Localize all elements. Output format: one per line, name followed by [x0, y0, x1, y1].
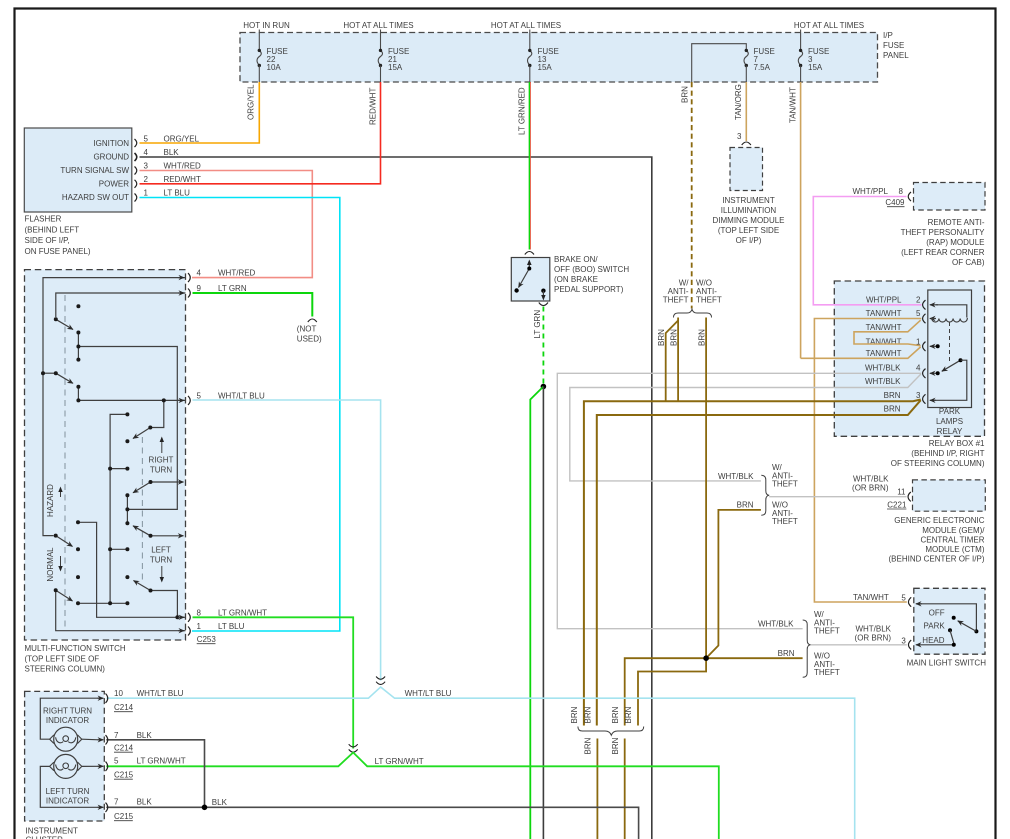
svg-text:PARK: PARK: [924, 621, 946, 630]
MFS pin 9 connector: [188, 289, 190, 298]
relay contact dot pin 1: [936, 344, 940, 348]
wire LT GRN MFS pin9 to not-used: [193, 293, 313, 317]
svg-text:C214: C214: [114, 703, 134, 712]
svg-text:CENTRAL TIMER: CENTRAL TIMER: [920, 536, 984, 545]
flasher pin 3 connector: [135, 167, 137, 175]
svg-text:WHT/PPL: WHT/PPL: [852, 187, 888, 196]
svg-text:TAN/WHT: TAN/WHT: [789, 87, 798, 123]
svg-text:LEFT TURN: LEFT TURN: [46, 787, 90, 796]
MLS blade: [958, 621, 977, 632]
svg-text:TURN SIGNAL SW: TURN SIGNAL SW: [60, 166, 129, 175]
svg-text:GROUND: GROUND: [93, 153, 129, 162]
MFS normal pivot feed to pin 1: [56, 590, 186, 631]
wire TAN/ORG fuse 7 to dimming module: [745, 82, 747, 141]
cluster pin 7 connector: [98, 739, 104, 741]
brace merging four BRN wires: [578, 727, 644, 736]
wire WHT/BLK relay pin4 to MLS brace: [557, 373, 921, 628]
wire BRN output 1 to bottom: [596, 739, 598, 839]
svg-text:BRN: BRN: [697, 329, 706, 346]
wire WHT/RED flasher pin3 to MFS pin4: [140, 171, 313, 278]
svg-text:BLK: BLK: [212, 798, 228, 807]
MLS pin 3 connector arc: [908, 640, 911, 649]
MFS normal blade: [56, 590, 73, 601]
wire BRN junction south branch: [638, 658, 706, 725]
fuse F21 15A: [378, 50, 382, 65]
MFS spine wire: [110, 414, 127, 603]
svg-text:POWER: POWER: [99, 180, 129, 189]
svg-text:ORG/YEL: ORG/YEL: [247, 84, 256, 120]
flasher module box: [24, 128, 132, 212]
svg-text:I/P: I/P: [883, 31, 893, 40]
svg-text:TAN/ORG: TAN/ORG: [734, 84, 743, 120]
cluster pin 7b connector: [98, 806, 104, 808]
MFS contact column segment 387-400: [77, 387, 79, 401]
MFS pin 8 connector: [188, 613, 190, 622]
relay pin 5 connector: [923, 314, 926, 323]
svg-text:MAIN LIGHT SWITCH: MAIN LIGHT SWITCH: [907, 659, 987, 668]
svg-text:FUSE: FUSE: [883, 41, 904, 50]
relay coil: [932, 319, 967, 323]
anti-theft brace top: [674, 309, 712, 317]
wire BRN output 2 to bottom: [624, 739, 626, 839]
svg-text:OF I/P): OF I/P): [736, 236, 762, 245]
svg-text:TURN: TURN: [150, 556, 172, 565]
wire LT GRN/WHT MFS pin8 down: [193, 617, 354, 748]
svg-text:IGNITION: IGNITION: [93, 139, 129, 148]
flasher pin 1 connector: [135, 194, 137, 202]
MFS second output wire: [151, 535, 184, 537]
svg-text:HAZARD: HAZARD: [46, 484, 55, 517]
svg-text:FLASHER: FLASHER: [25, 215, 62, 224]
svg-text:C215: C215: [114, 771, 134, 780]
lamp2 right wire to pin 5: [82, 765, 99, 767]
svg-text:C409: C409: [885, 198, 905, 207]
svg-text:HOT IN RUN: HOT IN RUN: [243, 21, 290, 30]
svg-text:BLK: BLK: [137, 798, 153, 807]
MLS common dot: [974, 629, 978, 633]
wire BRN w/o anti-theft branch down to junction: [705, 318, 707, 659]
wire BRN relay second row: [597, 400, 921, 725]
svg-text:15A: 15A: [538, 63, 553, 72]
relay blade: [942, 360, 961, 371]
park lamps relay body: [928, 290, 972, 408]
wire internal tap from fuse 7 to BRN column: [692, 44, 747, 82]
svg-text:BRN: BRN: [611, 737, 620, 754]
svg-text:GENERIC ELECTRONIC: GENERIC ELECTRONIC: [894, 516, 984, 525]
MLS park-head link: [950, 630, 954, 643]
MLS pin 3 contact dot: [952, 643, 956, 647]
relay pin 3 connector: [923, 394, 926, 403]
MFS inner divider turn column: [141, 437, 143, 583]
I/P fuse panel box: [240, 33, 878, 83]
wire RED/WHT flasher pin2 to fuse 21: [140, 82, 381, 184]
multi-function switch box: [25, 270, 186, 640]
svg-text:RELAY BOX #1: RELAY BOX #1: [929, 439, 985, 448]
svg-text:BRN: BRN: [570, 706, 579, 723]
svg-text:WHT/RED: WHT/RED: [218, 269, 256, 278]
svg-text:LT GRN: LT GRN: [218, 284, 247, 293]
wire BRN junction west branch: [625, 658, 706, 725]
MFS spine stub 468: [110, 468, 127, 470]
MFS hazard blade: [56, 536, 73, 547]
svg-text:ILLUMINATION: ILLUMINATION: [721, 206, 777, 215]
wire TAN/WHT fuse 3 down: [800, 82, 802, 358]
svg-text:LT GRN: LT GRN: [533, 310, 542, 339]
relay contact dot pin 4: [936, 371, 940, 375]
wire LT GRN/RED red stripe: [530, 82, 532, 250]
MFS left turn output to pin8 junction: [151, 591, 178, 618]
wire WHT/LT BLU MFS pin5 down: [193, 400, 381, 681]
svg-text:WHT/BLK: WHT/BLK: [718, 472, 754, 481]
svg-text:C221: C221: [887, 500, 907, 509]
svg-text:1: 1: [197, 622, 202, 631]
MLS pin 5 internal wire: [920, 604, 976, 632]
svg-text:C215: C215: [114, 812, 134, 821]
svg-text:TURN: TURN: [150, 466, 172, 475]
wire BLK flasher pin4 ground run: [140, 157, 652, 839]
wire BLK cluster pin7 upper link: [106, 740, 204, 808]
junction dot LT GRN / BLK split: [541, 384, 547, 390]
BOO switch connector arc top: [525, 252, 534, 255]
svg-text:3: 3: [737, 132, 742, 141]
relay coil wire to pin 2: [936, 305, 967, 318]
MLS pin 5 connector arc: [908, 597, 911, 606]
relay common dot: [959, 358, 963, 362]
wire BRN junction to MLS brace: [706, 657, 803, 659]
svg-text:(LEFT REAR CORNER: (LEFT REAR CORNER: [901, 248, 985, 257]
BOO switch up arrow: [528, 263, 530, 269]
MFS blade 4 right turn: [133, 482, 151, 493]
wire WHT/BLK second relay pin4 to GEM brace: [570, 374, 921, 481]
svg-text:C214: C214: [114, 744, 134, 753]
svg-text:RED/WHT: RED/WHT: [369, 88, 378, 125]
GEM connector arc: [908, 492, 911, 501]
svg-text:WHT/BLK: WHT/BLK: [853, 475, 889, 484]
svg-text:(TOP LEFT SIDE OF: (TOP LEFT SIDE OF: [25, 654, 100, 663]
svg-text:(BEHIND LEFT: (BEHIND LEFT: [25, 225, 80, 234]
svg-text:DIMMING MODULE: DIMMING MODULE: [713, 216, 785, 225]
MFS spine stub 549: [110, 548, 127, 550]
svg-text:9: 9: [197, 284, 202, 293]
cluster pin 10 connector: [98, 697, 104, 699]
MFS pin 5 internal wire: [78, 399, 185, 401]
svg-text:INDICATOR: INDICATOR: [46, 716, 89, 725]
fuse F22 feed tick: [258, 30, 260, 50]
relay pin 2 connector: [923, 300, 926, 309]
svg-text:BRN: BRN: [584, 737, 593, 754]
lamp1 left wire to pin 10: [40, 698, 99, 739]
svg-text:PANEL: PANEL: [883, 51, 909, 60]
wire BLK row cluster pin7 to bottom: [106, 807, 638, 839]
relay pin 4 connector: [923, 369, 926, 378]
svg-text:2: 2: [144, 175, 149, 184]
svg-text:(NOT: (NOT: [297, 325, 317, 334]
svg-text:RIGHT: RIGHT: [149, 456, 174, 465]
MFS contact dots: [41, 304, 179, 619]
svg-text:RELAY: RELAY: [937, 427, 963, 436]
wire LT BLU flasher pin1 to MFS pin1: [140, 198, 340, 632]
svg-text:USED): USED): [297, 335, 322, 344]
MFS inner divider hazard/normal: [64, 295, 66, 629]
svg-text:OF CAB): OF CAB): [952, 258, 985, 267]
MFS right turn output wire: [151, 481, 184, 483]
svg-text:BRN: BRN: [737, 501, 754, 510]
wire LT GRN branch down-left to bottom: [530, 387, 543, 839]
svg-text:LT GRN/WHT: LT GRN/WHT: [218, 608, 267, 617]
flasher pin 4 connector: [135, 153, 137, 161]
MFS blade from pin 9: [56, 319, 73, 329]
svg-text:4: 4: [144, 148, 149, 157]
instrument illumination dimming module box: [730, 148, 763, 191]
svg-text:15A: 15A: [808, 63, 823, 72]
svg-text:10: 10: [114, 689, 123, 698]
relay common wire to pin 3: [934, 360, 967, 400]
main light switch box: [914, 588, 985, 654]
wire WHT/PPL RAP to relay pin 2: [813, 197, 921, 305]
svg-text:HOT AT ALL TIMES: HOT AT ALL TIMES: [343, 21, 413, 30]
svg-text:BRN: BRN: [884, 405, 901, 414]
svg-text:BRN: BRN: [657, 329, 666, 346]
svg-text:2: 2: [916, 296, 921, 305]
MLS merge brace: [803, 620, 811, 677]
svg-text:(BEHIND CENTER OF I/P): (BEHIND CENTER OF I/P): [888, 555, 984, 564]
svg-text:(OR BRN): (OR BRN): [855, 634, 892, 643]
fuse F7 7.5A: [744, 50, 748, 65]
GEM merge brace: [761, 475, 769, 515]
junction dot BLK: [202, 805, 208, 811]
svg-text:(ON BRAKE: (ON BRAKE: [554, 275, 598, 284]
svg-text:ORG/YEL: ORG/YEL: [164, 135, 200, 144]
MFS pin 5 connector: [188, 396, 190, 405]
svg-text:HOT AT ALL TIMES: HOT AT ALL TIMES: [491, 21, 561, 30]
svg-text:1: 1: [144, 189, 149, 198]
lamp1 right wire to pin 7: [82, 738, 99, 741]
fuse F13 feed tick: [529, 30, 531, 50]
svg-text:THEFT: THEFT: [663, 296, 689, 305]
svg-text:BRN: BRN: [624, 706, 633, 723]
remote anti-theft personality module box: [914, 183, 986, 211]
svg-text:THEFT: THEFT: [772, 517, 798, 526]
svg-text:7: 7: [114, 731, 119, 740]
wire BRN w/ anti-theft branch: [677, 318, 679, 402]
svg-text:TAN/WHT: TAN/WHT: [866, 309, 902, 318]
svg-text:MODULE (GEM)/: MODULE (GEM)/: [922, 526, 985, 535]
svg-text:8: 8: [899, 187, 904, 196]
svg-text:BLK: BLK: [164, 148, 180, 157]
instrument cluster box: [25, 691, 105, 821]
svg-text:10A: 10A: [267, 63, 282, 72]
wire LT GRN/RED fuse 13 down to BOO switch (green part): [528, 82, 530, 250]
MFS contact column segment 332-360: [77, 333, 79, 360]
svg-text:OFF: OFF: [929, 608, 945, 617]
MFS left turn blade: [134, 581, 151, 591]
svg-text:(TOP LEFT SIDE: (TOP LEFT SIDE: [718, 226, 779, 235]
relay pin 1 connector: [923, 342, 926, 351]
svg-text:WHT/BLK: WHT/BLK: [865, 377, 901, 386]
svg-text:(BEHIND I/P, RIGHT: (BEHIND I/P, RIGHT: [911, 449, 984, 458]
MFS contact column segment 495-523: [126, 495, 128, 523]
dimming module connector arc: [742, 142, 751, 145]
svg-text:BRN: BRN: [611, 706, 620, 723]
fuse F22 10A: [257, 50, 261, 65]
svg-text:HAZARD SW OUT: HAZARD SW OUT: [62, 193, 129, 202]
svg-text:SIDE OF I/P,: SIDE OF I/P,: [25, 236, 70, 245]
svg-text:WHT/LT BLU: WHT/LT BLU: [137, 689, 184, 698]
MFS blade 5: [133, 526, 151, 536]
wire BLK branch continuing down: [542, 387, 544, 839]
svg-text:OF STEERING COLUMN): OF STEERING COLUMN): [891, 459, 985, 468]
MFS crossover wire to right-turn contact: [78, 347, 177, 510]
MFS pin edge arrows: [178, 278, 184, 631]
fuse F21 feed tick: [380, 30, 382, 50]
MFS feed to turn blade: [150, 400, 164, 427]
wire ORG/YEL flasher pin5 to fuse 22: [140, 82, 260, 143]
svg-text:OFF (BOO) SWITCH: OFF (BOO) SWITCH: [554, 265, 629, 274]
MFS pin 9 internal wire: [56, 293, 186, 317]
not used terminator arc: [308, 319, 317, 322]
svg-text:3: 3: [901, 637, 906, 646]
svg-text:7.5A: 7.5A: [754, 63, 771, 72]
wire TAN/WHT jumper relay pin5 to pin1: [854, 320, 921, 346]
svg-text:5: 5: [901, 594, 906, 603]
MFS pin 8 internal wire: [78, 522, 186, 617]
RAP connector arc: [908, 192, 911, 201]
svg-text:BLK: BLK: [137, 731, 153, 740]
svg-text:BRN: BRN: [681, 86, 690, 103]
MFS pin 4 connector: [188, 273, 190, 282]
svg-text:LT GRN/WHT: LT GRN/WHT: [137, 757, 186, 766]
svg-text:CLUSTER: CLUSTER: [26, 836, 64, 839]
svg-text:7: 7: [114, 798, 119, 807]
svg-text:TAN/WHT: TAN/WHT: [853, 593, 889, 602]
svg-text:THEFT: THEFT: [814, 627, 840, 636]
svg-text:BRN: BRN: [669, 329, 678, 346]
svg-text:TAN/WHT: TAN/WHT: [866, 349, 902, 358]
svg-text:WHT/BLK: WHT/BLK: [855, 625, 891, 634]
svg-text:PARK: PARK: [939, 407, 961, 416]
svg-text:ON FUSE PANEL): ON FUSE PANEL): [25, 247, 91, 256]
svg-text:5: 5: [114, 757, 119, 766]
svg-text:LAMPS: LAMPS: [936, 417, 963, 426]
svg-text:INSTRUMENT: INSTRUMENT: [722, 196, 775, 205]
relay box #1 outer dashed box: [834, 281, 984, 436]
svg-text:THEFT: THEFT: [772, 480, 798, 489]
svg-text:THEFT PERSONALITY: THEFT PERSONALITY: [901, 228, 986, 237]
svg-text:PEDAL SUPPORT): PEDAL SUPPORT): [554, 285, 624, 294]
svg-text:RIGHT TURN: RIGHT TURN: [43, 707, 92, 716]
fuse F3 feed tick: [800, 30, 802, 50]
wire BRN w/ anti-theft split branch: [666, 321, 678, 402]
BOO switch contact dot: [514, 288, 518, 292]
BOO switch blade: [519, 269, 530, 288]
svg-text:INSTRUMENT: INSTRUMENT: [26, 827, 79, 836]
MLS contact dot OFF: [952, 616, 956, 620]
wire TAN/WHT fuse3 run to relay pin 1: [801, 347, 921, 358]
svg-text:NORMAL: NORMAL: [46, 547, 55, 582]
MFS blade 2: [56, 373, 73, 383]
svg-text:4: 4: [197, 269, 202, 278]
svg-text:BRN: BRN: [584, 706, 593, 723]
svg-text:WHT/RED: WHT/RED: [164, 162, 202, 171]
wire BRN relay pin 3 row: [584, 400, 921, 726]
svg-text:RED/WHT: RED/WHT: [164, 175, 201, 184]
relay actuator dashed link: [949, 322, 951, 361]
svg-text:LT GRN/WHT: LT GRN/WHT: [375, 757, 424, 766]
svg-text:BRN: BRN: [884, 391, 901, 400]
svg-text:THEFT: THEFT: [696, 296, 722, 305]
flasher pin 2 connector: [135, 180, 137, 188]
svg-text:(RAP) MODULE: (RAP) MODULE: [926, 238, 984, 247]
wire WHT/LT BLU row cluster pin10 to right side: [106, 687, 854, 839]
svg-text:INDICATOR: INDICATOR: [46, 797, 89, 806]
svg-text:15A: 15A: [388, 63, 403, 72]
svg-text:WHT/LT BLU: WHT/LT BLU: [405, 689, 452, 698]
svg-text:5: 5: [144, 135, 149, 144]
MFS pin 1 connector: [188, 627, 190, 636]
splice on LT GRN/WHT: [349, 744, 358, 747]
wire WHT/BLK (OR BRN) to MLS pin 3: [811, 644, 907, 646]
svg-text:LT BLU: LT BLU: [218, 622, 245, 631]
MLS pin 3 internal wire: [916, 644, 954, 646]
wire LT GRN/WHT row cluster pin5 to right side: [106, 753, 719, 839]
svg-text:HEAD: HEAD: [922, 636, 944, 645]
svg-text:WHT/LT BLU: WHT/LT BLU: [218, 391, 265, 400]
svg-text:(OR BRN): (OR BRN): [852, 484, 889, 493]
svg-text:BRAKE ON/: BRAKE ON/: [554, 255, 598, 264]
wire BRN dashed from fuse panel to anti-theft brace: [691, 82, 693, 309]
cluster pin 5 connector: [98, 765, 104, 767]
lamp2 left wire to pin 7 bottom: [40, 766, 99, 807]
wire TAN/WHT relay pin5 to main light switch pin 5: [814, 319, 921, 603]
svg-text:4: 4: [916, 363, 921, 372]
svg-text:LT BLU: LT BLU: [164, 189, 191, 198]
lamp left turn indicator: [54, 754, 78, 778]
svg-text:5: 5: [916, 309, 921, 318]
svg-text:3: 3: [144, 162, 149, 171]
flasher pin 5 connector: [135, 139, 137, 147]
wire BRN from GEM brace down to junction: [707, 510, 761, 658]
wire WHT/BLK (OR BRN) to GEM pin 11: [769, 496, 906, 498]
svg-text:WHT/PPL: WHT/PPL: [866, 296, 902, 305]
MFS pin 4 internal wire: [43, 278, 186, 536]
svg-text:5: 5: [197, 391, 202, 400]
svg-text:11: 11: [897, 488, 906, 497]
fuse F3 15A: [798, 50, 802, 65]
svg-text:BRN: BRN: [778, 649, 795, 658]
svg-text:3: 3: [916, 391, 921, 400]
svg-text:LEFT: LEFT: [151, 546, 171, 555]
svg-text:C253: C253: [197, 635, 217, 644]
svg-text:WHT/BLK: WHT/BLK: [865, 363, 901, 372]
MFS blade 3: [133, 428, 150, 439]
MFS pivot link pin4 column: [43, 372, 56, 374]
BOO switch connector arc bottom: [539, 303, 548, 306]
svg-text:STEERING COLUMN): STEERING COLUMN): [25, 664, 106, 673]
svg-text:WHT/BLK: WHT/BLK: [758, 620, 794, 629]
splice on WHT/LT BLU: [376, 677, 385, 680]
MFS bottom contact row: [78, 602, 127, 604]
svg-text:REMOTE ANTI-: REMOTE ANTI-: [928, 218, 985, 227]
svg-text:MULTI-FUNCTION SWITCH: MULTI-FUNCTION SWITCH: [25, 644, 126, 653]
svg-text:TAN/WHT: TAN/WHT: [866, 338, 902, 347]
lamp right turn indicator: [54, 727, 78, 751]
svg-text:HOT AT ALL TIMES: HOT AT ALL TIMES: [794, 21, 864, 30]
svg-text:MODULE (CTM): MODULE (CTM): [925, 545, 984, 554]
BOO switch pivot dot: [527, 267, 531, 271]
svg-text:8: 8: [197, 608, 202, 617]
junction dot BRN: [703, 655, 709, 661]
generic electronic module box: [913, 480, 986, 511]
